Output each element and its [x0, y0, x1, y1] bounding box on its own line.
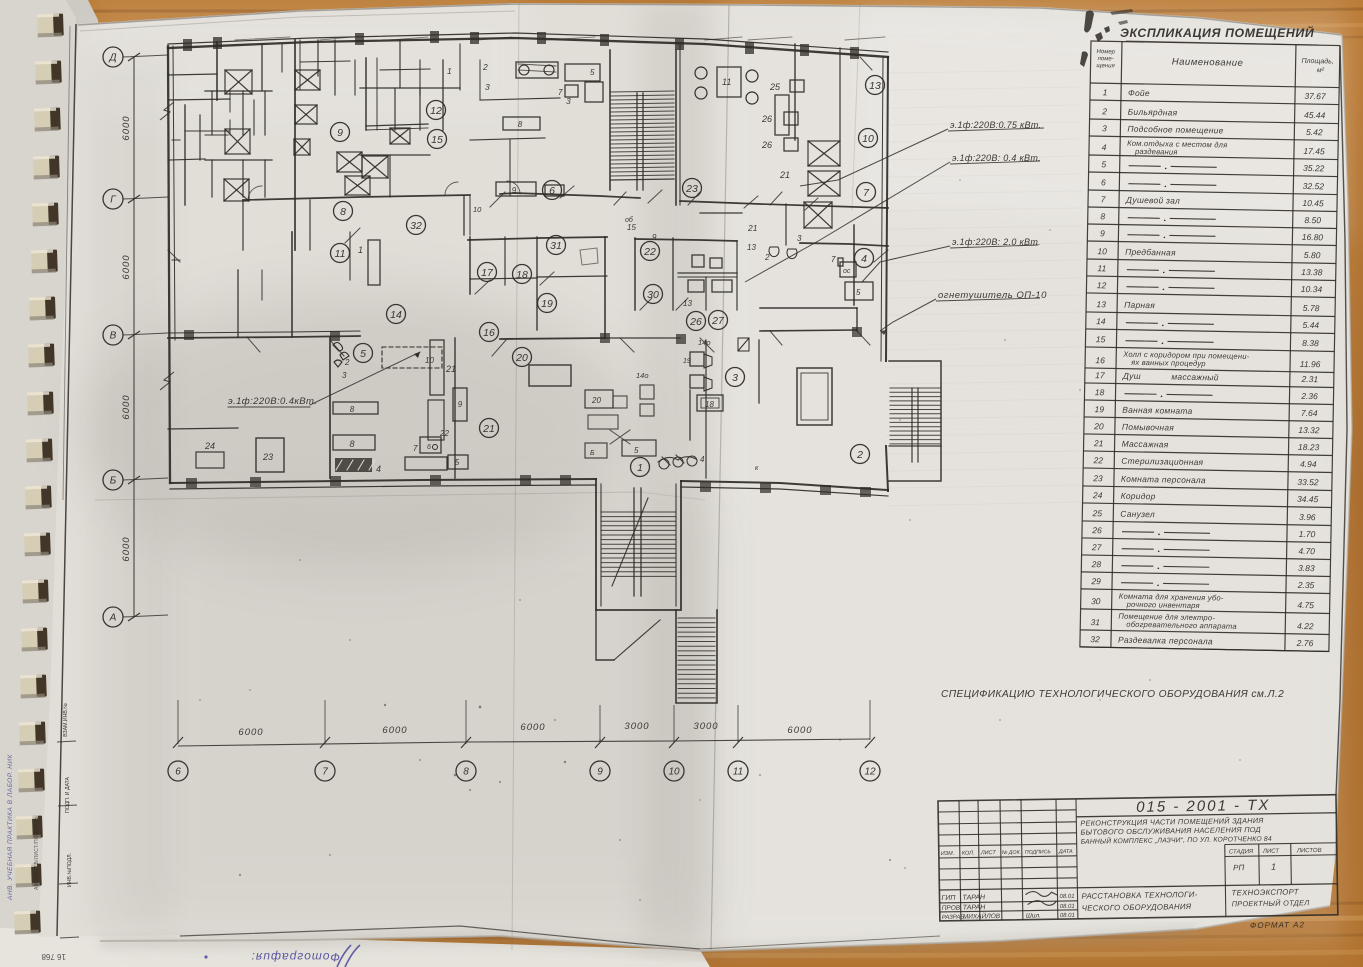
hatched pool room 5 [382, 347, 442, 368]
svg-text:1: 1 [1271, 862, 1276, 872]
svg-text:ПОДПИСЬ: ПОДПИСЬ [1025, 849, 1052, 855]
svg-text:37.67: 37.67 [1304, 91, 1326, 101]
svg-text:2: 2 [764, 253, 770, 262]
svg-text:Предбанная: Предбанная [1125, 247, 1176, 258]
svg-text:В: В [110, 331, 117, 342]
svg-text:4: 4 [1102, 142, 1107, 152]
svg-text:4: 4 [376, 464, 381, 474]
svg-text:2.31: 2.31 [1300, 374, 1318, 384]
photocopy ghost striping [885, 70, 1082, 506]
svg-text:5: 5 [856, 288, 861, 297]
secondary wall y=237 [468, 237, 607, 240]
svg-text:10: 10 [473, 205, 482, 214]
svg-text:3: 3 [732, 372, 738, 384]
outer wall bottom [170, 479, 596, 483]
svg-text:Душевой зал: Душевой зал [1125, 195, 1180, 206]
svg-text:19: 19 [1094, 404, 1104, 414]
svg-text:7: 7 [558, 88, 563, 97]
svg-text:13: 13 [1096, 299, 1106, 309]
svg-text:ЛИСТ: ЛИСТ [1262, 849, 1281, 855]
svg-text:19: 19 [683, 358, 691, 365]
bench 23/24 room [256, 438, 284, 472]
room 15 massage table [797, 368, 832, 425]
speckles [199, 179, 1241, 901]
svg-text:1: 1 [637, 462, 643, 474]
upper-left extra partitions [168, 74, 217, 75]
svg-text:12: 12 [864, 767, 876, 778]
svg-text:18: 18 [516, 269, 528, 281]
svg-text:13: 13 [683, 299, 692, 308]
svg-text:ЛИСТ: ЛИСТ [980, 850, 997, 856]
svg-text:ях ванных процедур: ях ванных процедур [1130, 358, 1206, 368]
svg-text:4.22: 4.22 [1297, 621, 1314, 631]
svg-text:13.32: 13.32 [1298, 425, 1320, 435]
svg-text:1: 1 [1103, 87, 1108, 97]
svg-text:2: 2 [344, 358, 350, 367]
comb binding tabs [37, 14, 64, 38]
svg-text:16 768: 16 768 [41, 952, 66, 961]
svg-text:3: 3 [485, 82, 490, 92]
washbasins room 11 top [695, 67, 707, 79]
svg-text:22: 22 [439, 429, 449, 438]
svg-text:8: 8 [350, 405, 355, 414]
svg-text:Бильярдная: Бильярдная [1128, 107, 1178, 118]
svg-text:Массажная: Массажная [1122, 439, 1169, 450]
svg-text:Б: Б [110, 476, 117, 487]
svg-text:31: 31 [550, 240, 562, 252]
svg-text:32: 32 [1090, 634, 1100, 644]
svg-text:8: 8 [349, 439, 354, 449]
svg-text:поме-: поме- [1098, 56, 1114, 62]
svg-text:8: 8 [340, 206, 346, 218]
room 22/30 fixtures [692, 255, 704, 267]
right frame line [1336, 46, 1347, 795]
svg-text:8: 8 [518, 120, 523, 129]
svg-text:20: 20 [591, 396, 601, 405]
svg-text:26: 26 [689, 316, 702, 328]
svg-text:5.44: 5.44 [1302, 320, 1319, 330]
svg-text:ТЕХНОЭКСПОРТ: ТЕХНОЭКСПОРТ [1231, 887, 1299, 897]
svg-text:10.45: 10.45 [1302, 198, 1324, 208]
svg-text:24: 24 [1092, 490, 1103, 500]
bottom underlying page [0, 928, 710, 967]
svg-text:16: 16 [483, 327, 495, 339]
svg-text:ПОДП. И ДАТА: ПОДП. И ДАТА [65, 776, 71, 813]
svg-text:Душ массажный: Душ массажный [1122, 371, 1219, 383]
svg-text:2.36: 2.36 [1300, 391, 1318, 401]
svg-text:21: 21 [779, 170, 790, 180]
svg-text:08.01: 08.01 [1060, 913, 1075, 919]
svg-text:3: 3 [566, 96, 571, 106]
svg-text:08.01: 08.01 [1059, 894, 1074, 900]
svg-text:32: 32 [410, 220, 422, 232]
wall column blocks [183, 39, 192, 51]
svg-text:31: 31 [1091, 617, 1101, 627]
svg-text:15: 15 [1096, 334, 1106, 344]
room 20 table [529, 365, 571, 386]
massage bed dark [335, 458, 372, 472]
svg-text:3000: 3000 [693, 721, 718, 732]
svg-text:10.34: 10.34 [1301, 284, 1323, 294]
door swings [345, 228, 360, 243]
svg-text:Фойе: Фойе [1128, 88, 1150, 98]
svg-text:Б: Б [590, 450, 595, 457]
svg-text:12: 12 [1097, 280, 1107, 290]
toilets small section [769, 247, 779, 257]
svg-text:А: А [109, 613, 117, 624]
svg-text:3: 3 [342, 371, 347, 380]
cabinets 5 top [565, 64, 600, 81]
svg-text:5: 5 [634, 446, 639, 455]
svg-text:21: 21 [1093, 438, 1104, 448]
svg-text:Подсобное помещение: Подсобное помещение [1127, 124, 1223, 136]
svg-text:34.45: 34.45 [1297, 494, 1319, 504]
svg-text:Санузел: Санузел [1120, 509, 1155, 520]
svg-text:3: 3 [1102, 123, 1107, 133]
svg-text:…… …………… ……… ……: …… …………… ……… …… [925, 297, 1041, 307]
svg-text:6000: 6000 [520, 722, 545, 733]
svg-text:27: 27 [1091, 542, 1102, 552]
svg-text:9: 9 [1100, 228, 1105, 238]
svg-text:10: 10 [862, 133, 874, 145]
staircase 2 lower flight [596, 610, 614, 660]
svg-text:РАССТАНОВКА ТЕХНОЛОГИ-: РАССТАНОВКА ТЕХНОЛОГИ- [1081, 890, 1197, 901]
svg-text:22: 22 [1092, 455, 1103, 465]
horizontal crease [95, 492, 640, 500]
outer wall left [168, 46, 170, 483]
svg-text:ПРОВ.: ПРОВ. [942, 905, 963, 912]
svg-text:17: 17 [1095, 370, 1105, 380]
svg-text:2: 2 [856, 449, 863, 461]
svg-text:11: 11 [335, 248, 346, 260]
svg-text:э.1ф:220В:0.4кВт.: э.1ф:220В:0.4кВт. [228, 396, 317, 407]
svg-text:6: 6 [1101, 177, 1106, 187]
svg-text:ЛИСТОВ: ЛИСТОВ [1296, 848, 1322, 854]
bottom frame line [180, 926, 700, 949]
svg-text:14о: 14о [636, 371, 649, 380]
svg-text:4: 4 [861, 253, 867, 265]
svg-text:Парная: Парная [1124, 300, 1155, 311]
svg-text:15: 15 [627, 223, 636, 232]
svg-text:10: 10 [668, 767, 680, 778]
svg-text:5.42: 5.42 [1306, 127, 1323, 137]
svg-text:Фотография:: Фотография: [251, 950, 340, 964]
svg-text:5: 5 [360, 348, 366, 360]
landing diagonal [614, 620, 660, 660]
svg-text:12: 12 [430, 105, 442, 117]
svg-text:13.38: 13.38 [1301, 267, 1323, 277]
svg-text:7: 7 [831, 255, 836, 264]
axis B wall column blocks [184, 330, 194, 340]
svg-text:РП: РП [1233, 863, 1244, 872]
ink blots [1080, 9, 1133, 67]
axis stubs [177, 700, 179, 744]
svg-text:Раздевалка персонала: Раздевалка персонала [1118, 635, 1213, 647]
svg-text:14: 14 [1096, 316, 1106, 326]
shaft boxes stack B [295, 70, 320, 90]
wardrobe 1 lower left [368, 240, 380, 285]
svg-text:2: 2 [482, 62, 488, 72]
svg-text:…… …………… ……… ……: …… …………… ……… …… [925, 422, 1041, 432]
coat rack 10 [463, 196, 465, 235]
svg-text:13: 13 [747, 243, 756, 252]
svg-text:Номер: Номер [1097, 49, 1116, 55]
svg-text:ИНВ.№ПОДЛ.: ИНВ.№ПОДЛ. [67, 853, 73, 887]
blue stamp upside down [251, 950, 340, 964]
cabinets 21/22 center [430, 340, 444, 395]
bicycle scribble room 1 [658, 455, 697, 469]
svg-text:2.35: 2.35 [1297, 580, 1315, 590]
boxes room 6 [503, 117, 540, 130]
svg-text:м²: м² [1317, 67, 1325, 74]
small equip right section [840, 262, 856, 277]
equip row above bottom stairs [622, 440, 656, 456]
svg-text:Площадь,: Площадь, [1301, 57, 1334, 66]
svg-text:АНВ. УЧЕБНАЯ ПРАКТИКА В ЛАБОР.: АНВ. УЧЕБНАЯ ПРАКТИКА В ЛАБОР. НИК [7, 754, 14, 901]
svg-text:8.50: 8.50 [1304, 215, 1321, 225]
svg-text:Помывочная: Помывочная [1122, 422, 1175, 433]
outer wall right [886, 57, 888, 361]
svg-text:21: 21 [747, 223, 758, 233]
svg-text:4.75: 4.75 [1297, 600, 1314, 610]
tilted rect room13 [738, 338, 749, 351]
svg-text:11.96: 11.96 [1300, 359, 1321, 369]
svg-text:19: 19 [541, 298, 553, 310]
svg-text:25: 25 [1092, 508, 1103, 518]
shaft cluster center [337, 152, 362, 172]
svg-text:3.96: 3.96 [1299, 512, 1316, 522]
svg-text:2: 2 [1101, 106, 1107, 116]
svg-text:3.83: 3.83 [1298, 563, 1315, 573]
svg-text:33.52: 33.52 [1297, 477, 1319, 487]
svg-text:6000: 6000 [121, 394, 132, 419]
vertical fold creases [512, 2, 519, 950]
svg-text:4.94: 4.94 [1300, 459, 1317, 469]
svg-text:3: 3 [797, 234, 802, 243]
svg-text:6: 6 [427, 444, 431, 451]
svg-text:9: 9 [512, 186, 517, 195]
stall partitions [211, 91, 213, 135]
svg-text:ГИП: ГИП [941, 895, 956, 902]
svg-text:015 - 2001 - ТХ: 015 - 2001 - ТХ [1136, 797, 1270, 816]
left margin cells [57, 741, 76, 742]
scribble blob room5 [333, 343, 349, 368]
svg-text:Шил.: Шил. [1026, 912, 1041, 919]
svg-text:6000: 6000 [121, 536, 132, 561]
svg-text:8.38: 8.38 [1302, 338, 1319, 348]
solarium top [516, 62, 558, 78]
svg-text:35.22: 35.22 [1303, 163, 1325, 173]
elevator shafts right [808, 141, 840, 166]
stools [420, 437, 441, 453]
svg-text:9: 9 [652, 233, 657, 242]
svg-text:17.45: 17.45 [1303, 146, 1325, 156]
svg-text:32.52: 32.52 [1303, 181, 1325, 191]
svg-text:ДАТА: ДАТА [1058, 849, 1073, 855]
svg-text:1: 1 [447, 66, 452, 76]
bench 9 vertical [453, 388, 467, 421]
svg-text:13: 13 [869, 80, 881, 92]
svg-text:ИЗМ.: ИЗМ. [941, 851, 955, 857]
svg-text:45.44: 45.44 [1304, 110, 1326, 120]
svg-text:1.70: 1.70 [1299, 529, 1316, 539]
svg-text:11: 11 [733, 767, 743, 778]
sinks room 31 area [690, 352, 704, 366]
svg-text:23: 23 [262, 452, 273, 462]
svg-text:27: 27 [711, 315, 725, 327]
svg-text:Стерилизационная: Стерилизационная [1121, 456, 1203, 468]
svg-text:ЧЕСКОГО ОБОРУДОВАНИЯ: ЧЕСКОГО ОБОРУДОВАНИЯ [1082, 902, 1192, 913]
svg-text:5.78: 5.78 [1303, 303, 1320, 313]
svg-text:7: 7 [1101, 194, 1106, 204]
svg-text:6000: 6000 [121, 254, 132, 279]
svg-text:30: 30 [1091, 596, 1101, 606]
svg-text:АМВ/№ГТВ/ЛИСТ/ПОДПИСЬ: АМВ/№ГТВ/ЛИСТ/ПОДПИСЬ [34, 816, 40, 890]
svg-text:Ванная комната: Ванная комната [1122, 405, 1192, 416]
svg-text:6000: 6000 [382, 725, 407, 736]
svg-text:22: 22 [643, 246, 656, 258]
window marks [235, 37, 290, 40]
benches room 5/5a [333, 402, 378, 414]
svg-text:СТАДИЯ: СТАДИЯ [1229, 849, 1254, 855]
svg-text:10: 10 [1097, 246, 1107, 256]
left axis dimension line [133, 57, 135, 617]
svg-text:25: 25 [769, 82, 781, 92]
svg-text:2.76: 2.76 [1296, 638, 1314, 648]
sterilizer room 18 [697, 395, 723, 411]
shaft boxes stack A [225, 70, 252, 94]
desk room 24 area [585, 390, 613, 408]
svg-text:24: 24 [204, 441, 215, 451]
svg-text:23: 23 [685, 183, 698, 195]
svg-text:20: 20 [515, 352, 528, 364]
axis В corridor wall [168, 336, 360, 338]
svg-text:Наименование: Наименование [1172, 56, 1244, 68]
svg-text:КОЛ.: КОЛ. [962, 850, 975, 856]
svg-text:11: 11 [1097, 263, 1106, 273]
svg-text:9: 9 [458, 400, 463, 409]
bottom axis dimension line [178, 739, 870, 746]
room number circles [331, 123, 350, 142]
svg-text:11: 11 [722, 77, 731, 87]
svg-text:4.70: 4.70 [1298, 546, 1315, 556]
svg-text:16: 16 [1095, 355, 1105, 365]
outer wall top [168, 38, 888, 57]
shadow under bottom paper edge [100, 931, 1196, 953]
staircase 1 (top) [611, 91, 674, 92]
svg-text:рочного инвентаря: рочного инвентаря [1126, 600, 1200, 610]
svg-text:8: 8 [1100, 211, 1105, 221]
svg-text:18: 18 [1095, 387, 1105, 397]
svg-text:5.80: 5.80 [1304, 250, 1321, 260]
svg-text:30: 30 [647, 289, 659, 301]
svg-text:17: 17 [481, 267, 494, 279]
svg-text:ос: ос [843, 268, 851, 275]
svg-text:26: 26 [761, 114, 772, 124]
square room31 [580, 248, 598, 265]
lower rooms wall y=425/450 [168, 428, 238, 429]
paper edges [78, 4, 1342, 35]
staircase 3 (right) [889, 361, 941, 481]
svg-text:…… …………… ……… ……: …… …………… ……… …… [925, 382, 1041, 392]
svg-text:18.23: 18.23 [1298, 442, 1320, 452]
break marks left wall [160, 102, 174, 390]
svg-text:7: 7 [322, 767, 328, 778]
svg-text:08.01: 08.01 [1060, 904, 1075, 910]
svg-text:1: 1 [358, 245, 363, 255]
svg-text:7.64: 7.64 [1301, 408, 1318, 418]
staircase 2 (bottom protruding) [596, 479, 681, 610]
svg-text:6: 6 [549, 185, 555, 197]
svg-text:ФОРМАТ А2: ФОРМАТ А2 [1250, 920, 1305, 930]
svg-text:ВЗАМ.ИНВ.№: ВЗАМ.ИНВ.№ [63, 703, 69, 737]
svg-text:21: 21 [482, 423, 495, 435]
svg-text:8: 8 [463, 767, 469, 778]
svg-text:5: 5 [1101, 159, 1106, 169]
16 768 upside down [41, 952, 66, 961]
svg-text:СПЕЦИФИКАЦИЮ ТЕХНОЛОГИЧЕСКОГО: СПЕЦИФИКАЦИЮ ТЕХНОЛОГИЧЕСКОГО ОБОРУДОВАН… [941, 689, 1284, 700]
svg-text:26: 26 [761, 140, 772, 150]
svg-text:26: 26 [1091, 525, 1102, 535]
svg-text:28: 28 [1091, 559, 1102, 569]
svg-text:29: 29 [1090, 576, 1101, 586]
svg-text:3000: 3000 [624, 721, 649, 732]
svg-text:ПРОЕКТНЫЙ ОТДЕЛ: ПРОЕКТНЫЙ ОТДЕЛ [1232, 898, 1311, 908]
svg-text:№ ДОК.: № ДОК. [1002, 850, 1021, 856]
svg-text:ТАРАН: ТАРАН [962, 894, 986, 901]
underlying notebook pages left edge [0, 0, 110, 952]
svg-text:ЭКСПЛИКАЦИЯ ПОМЕЩЕНИЙ: ЭКСПЛИКАЦИЯ ПОМЕЩЕНИЙ [1120, 24, 1315, 40]
svg-text:6: 6 [175, 767, 181, 778]
svg-text:6000: 6000 [787, 725, 812, 736]
svg-text:16.80: 16.80 [1302, 232, 1324, 242]
svg-text:6000: 6000 [238, 727, 263, 738]
door arcs upper-left [248, 181, 520, 200]
svg-text:15: 15 [431, 134, 443, 146]
corridor wall axis Г [243, 195, 470, 200]
svg-text:ТАРАН: ТАРАН [963, 904, 987, 911]
svg-text:7: 7 [413, 444, 418, 453]
svg-text:раздевания: раздевания [1134, 147, 1178, 157]
svg-text:Коридор: Коридор [1121, 491, 1156, 502]
left axis circles [103, 47, 123, 67]
svg-text:Комната персонала: Комната персонала [1121, 474, 1206, 486]
wall right of stair hall [705, 340, 707, 478]
svg-text:14: 14 [390, 309, 402, 321]
svg-text:5: 5 [590, 68, 595, 77]
room 23 door & bench [700, 212, 742, 214]
svg-text:6000: 6000 [121, 115, 132, 140]
svg-text:9: 9 [337, 127, 343, 139]
svg-text:23: 23 [1092, 473, 1103, 483]
interior vertical walls [216, 42, 218, 100]
svg-text:9: 9 [597, 767, 603, 778]
drawing frame left border [57, 24, 76, 936]
svg-text:Д: Д [108, 53, 116, 64]
svg-text:4: 4 [700, 455, 705, 464]
svg-text:…… …………… ……… ……: …… …………… ……… …… [925, 337, 1041, 347]
svg-text:об: об [625, 216, 634, 224]
svg-text:щения: щения [1096, 63, 1115, 69]
svg-text:20: 20 [1093, 421, 1104, 431]
